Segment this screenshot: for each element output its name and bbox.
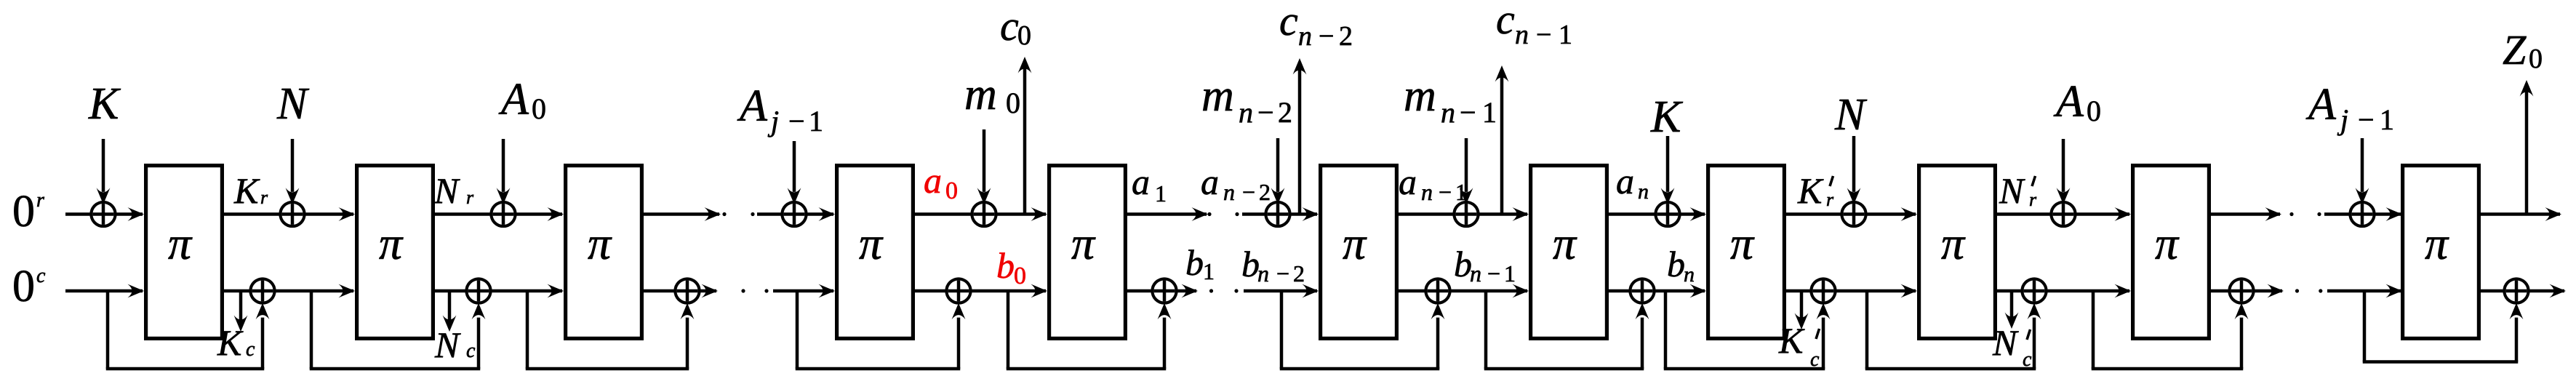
svg-text:c: c [466,340,476,362]
svg-text:c: c [1810,348,1820,371]
svg-text:N: N [276,79,310,129]
svg-text:0: 0 [2529,44,2543,74]
svg-text:c: c [1279,0,1298,44]
svg-text:b: b [996,245,1015,286]
svg-text:K: K [1650,92,1684,142]
svg-text:π: π [2155,217,2180,269]
svg-text:n: n [1515,20,1529,50]
svg-text:n: n [1257,260,1269,287]
svg-text:−: − [1536,20,1551,50]
svg-text:r: r [36,189,44,212]
svg-text:π: π [1941,217,1966,269]
svg-text:n: n [1421,179,1433,205]
svg-text:n: n [1441,96,1455,129]
svg-text:b: b [1667,244,1685,284]
svg-text:N: N [1992,322,2019,363]
svg-text:b: b [1185,242,1204,283]
svg-text:π: π [1071,217,1096,269]
svg-text:c: c [36,265,46,287]
svg-text:n: n [1638,180,1649,204]
svg-text:a: a [1616,161,1634,201]
svg-text:π: π [1553,217,1577,269]
svg-text:−: − [1487,260,1500,287]
svg-text:K: K [217,322,244,363]
svg-text:N: N [434,324,461,365]
svg-text:π: π [2425,217,2449,269]
svg-text:K: K [88,79,121,129]
svg-text:π: π [168,217,193,269]
svg-text:−: − [1242,179,1255,205]
svg-text:π: π [588,217,612,269]
svg-text:0: 0 [1014,263,1026,289]
svg-text:0: 0 [12,187,35,236]
svg-text:π: π [379,217,404,269]
svg-text:1: 1 [1482,96,1497,129]
svg-text:2: 2 [1293,260,1305,287]
svg-text:n: n [1684,263,1695,287]
svg-text:−: − [1460,96,1476,129]
svg-text:1: 1 [1203,258,1215,284]
svg-text:−: − [1319,21,1334,52]
svg-text:1: 1 [2380,103,2394,136]
svg-text:A: A [498,75,529,124]
svg-text:0: 0 [1006,87,1020,119]
svg-text:A: A [2053,77,2084,127]
svg-text:N: N [433,170,460,211]
svg-text:1: 1 [1559,20,1572,50]
svg-text:a: a [924,160,942,201]
svg-text:0: 0 [1017,20,1031,51]
svg-text:0: 0 [2087,95,2101,127]
svg-text:m: m [964,70,997,119]
svg-text:K: K [233,170,260,211]
svg-text:c: c [1496,0,1515,43]
svg-text:0: 0 [12,262,35,311]
svg-text:Z: Z [2503,26,2527,73]
svg-text:−: − [1439,179,1452,205]
svg-text:−: − [1276,260,1289,287]
svg-text:r: r [1826,189,1834,210]
svg-text:−: − [2358,103,2375,136]
svg-text:m: m [1404,71,1436,121]
svg-text:0: 0 [945,177,958,204]
svg-text:2: 2 [1259,179,1271,205]
svg-text:1: 1 [1455,179,1467,205]
svg-text:−: − [1257,96,1274,129]
svg-text:A: A [737,81,768,131]
svg-text:1: 1 [1504,260,1516,287]
svg-text:N: N [1834,90,1868,140]
svg-text:2: 2 [1339,21,1353,52]
svg-text:a: a [1201,161,1219,202]
svg-text:a: a [1399,161,1417,202]
svg-text:K: K [1778,320,1805,361]
svg-text:π: π [859,217,884,269]
svg-text:c: c [2023,348,2032,371]
svg-text:n: n [1239,96,1253,129]
svg-text:2: 2 [1278,96,1292,129]
svg-text:c: c [1000,2,1019,49]
svg-text:π: π [1730,217,1755,269]
svg-text:n: n [1298,21,1312,52]
svg-text:K: K [1797,170,1824,211]
svg-text:1: 1 [809,105,823,137]
svg-text:r: r [2029,189,2037,210]
svg-text:−: − [788,105,805,137]
svg-text:n: n [1470,260,1481,287]
svg-text:n: n [1223,179,1235,205]
svg-text:c: c [246,338,255,361]
svg-text:1: 1 [1155,180,1167,207]
svg-text:N: N [1999,170,2025,211]
svg-text:A: A [2305,80,2337,129]
svg-text:r: r [466,187,474,208]
svg-text:m: m [1201,71,1234,121]
svg-text:a: a [1132,161,1150,202]
svg-text:π: π [1343,217,1367,269]
svg-text:0: 0 [532,92,546,125]
svg-text:r: r [260,187,268,208]
